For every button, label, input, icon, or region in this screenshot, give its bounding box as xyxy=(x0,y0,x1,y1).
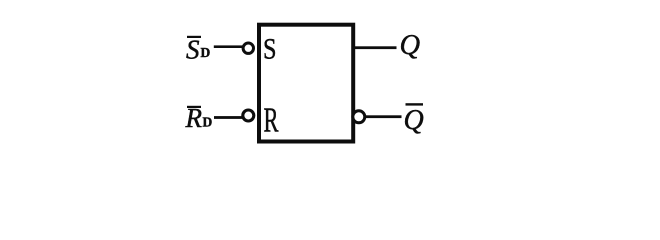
wire SD input xyxy=(214,45,243,48)
svg-text:Q: Q xyxy=(404,105,424,136)
svg-text:R: R xyxy=(264,101,279,139)
inversion bubble on S input xyxy=(243,43,253,53)
wire Q-bar output xyxy=(366,115,402,118)
svg-text:S: S xyxy=(186,34,200,64)
svg-text:Q: Q xyxy=(400,30,421,61)
latch body U1 xyxy=(259,25,353,142)
inversion bubble on Q-bar output xyxy=(353,111,365,123)
svg-text:D: D xyxy=(203,115,213,130)
input label SD-bar xyxy=(186,34,211,64)
svg-text:D: D xyxy=(201,45,211,60)
svg-text:S: S xyxy=(263,33,277,66)
input label RD-bar xyxy=(185,103,213,133)
output label Q-bar xyxy=(404,103,424,136)
wire RD input xyxy=(214,116,244,119)
wire Q output xyxy=(353,46,397,49)
inversion bubble on R input xyxy=(243,110,254,121)
